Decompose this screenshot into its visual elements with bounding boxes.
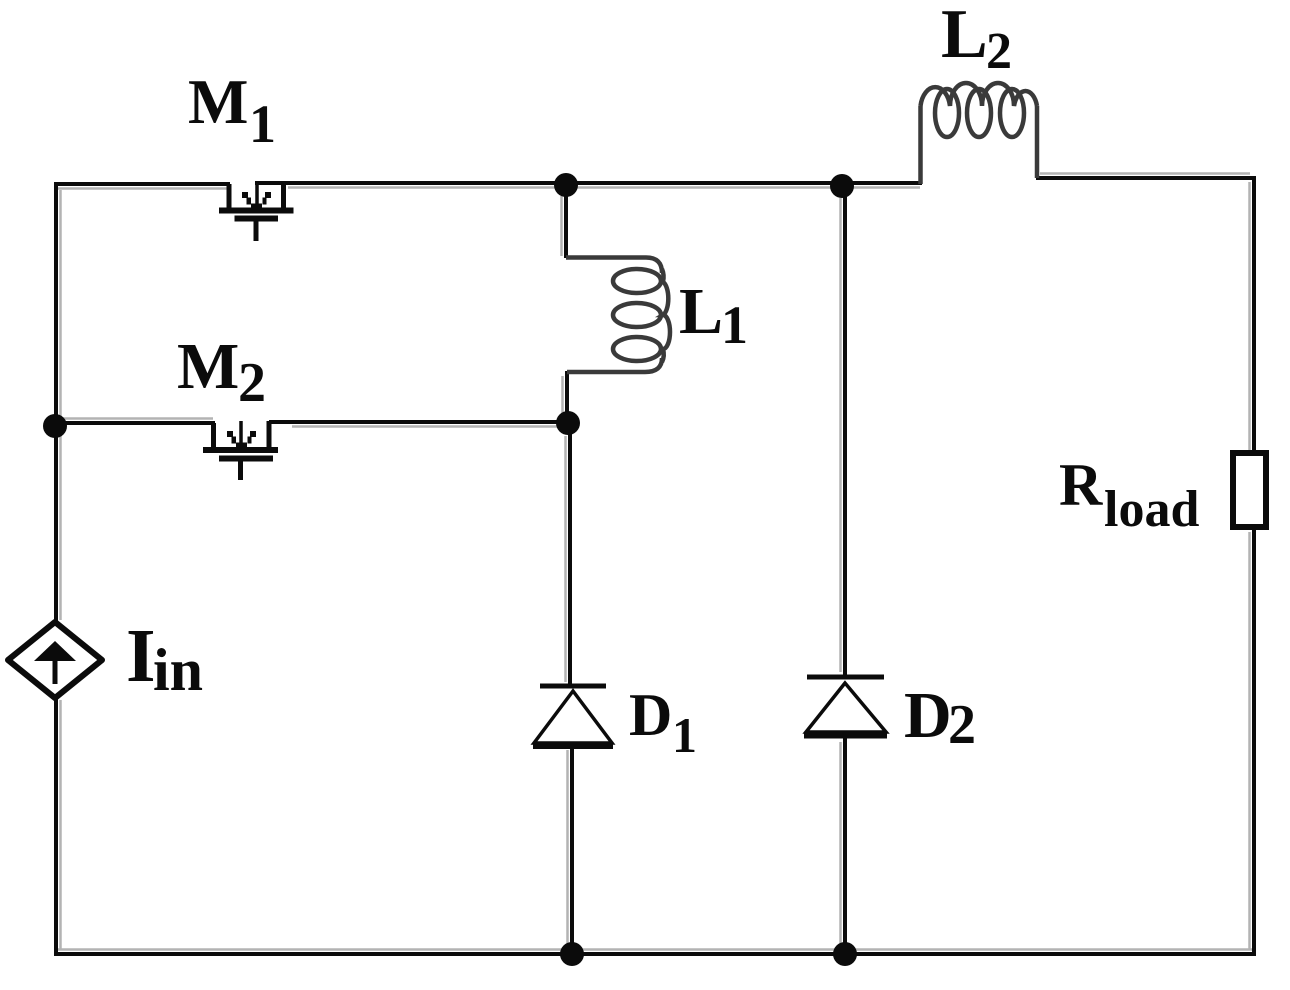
wire node A to L1 top — [562, 185, 567, 258]
svg-text:2: 2 — [238, 352, 266, 414]
wire node F to D1 — [566, 423, 571, 684]
wire node B to D2 — [841, 185, 846, 676]
svg-text:M: M — [188, 66, 248, 137]
svg-text:M: M — [177, 330, 239, 403]
wire right vertical upper — [1250, 176, 1255, 453]
resistor Rload — [1233, 453, 1266, 527]
label Iin — [126, 614, 203, 703]
node D junction dot — [833, 942, 857, 966]
inductor L1 — [566, 258, 670, 373]
wire L2 to top-right corner — [1036, 174, 1256, 179]
node E junction dot — [43, 414, 67, 438]
label L1 — [679, 275, 748, 355]
wire M2 row right — [269, 422, 568, 427]
svg-text:load: load — [1104, 481, 1199, 538]
node B junction dot — [830, 174, 854, 198]
wire top-left horizontal — [56, 184, 230, 189]
label M1 — [188, 66, 276, 154]
transistor M2 — [203, 421, 278, 480]
wire D2 to bottom — [841, 737, 846, 955]
label Rload — [1059, 452, 1199, 538]
transistor M1 — [219, 182, 294, 241]
wire L1 bottom to node F — [563, 371, 568, 425]
label D2 — [904, 679, 976, 756]
inductor L2 — [921, 83, 1038, 184]
svg-text:in: in — [153, 637, 203, 703]
wire top main horizontal — [255, 183, 922, 188]
svg-text:2: 2 — [986, 23, 1012, 80]
diode D1 — [533, 686, 613, 746]
wire M2 row left — [56, 419, 215, 424]
wire D1 to bottom — [568, 746, 573, 955]
svg-text:1: 1 — [672, 707, 697, 763]
svg-text:L: L — [941, 0, 988, 73]
wire left vertical lower — [56, 697, 61, 956]
svg-text:R: R — [1059, 452, 1103, 518]
svg-text:L: L — [679, 275, 723, 348]
label D1 — [629, 682, 697, 763]
wire bottom horizontal — [54, 950, 1256, 955]
svg-text:D: D — [629, 682, 672, 748]
svg-text:D: D — [904, 679, 952, 752]
label M2 — [177, 330, 266, 414]
label L2 — [941, 0, 1012, 80]
svg-text:1: 1 — [249, 94, 276, 154]
wire left vertical upper — [56, 182, 61, 624]
svg-text:2: 2 — [948, 694, 976, 756]
current source Iin — [8, 622, 102, 698]
svg-text:1: 1 — [721, 295, 748, 355]
node A junction dot — [554, 173, 578, 197]
diode D2 — [804, 677, 887, 735]
node C junction dot — [560, 942, 584, 966]
wire right vertical lower — [1250, 527, 1255, 956]
svg-text:I: I — [126, 614, 156, 698]
node F junction dot — [556, 411, 580, 435]
